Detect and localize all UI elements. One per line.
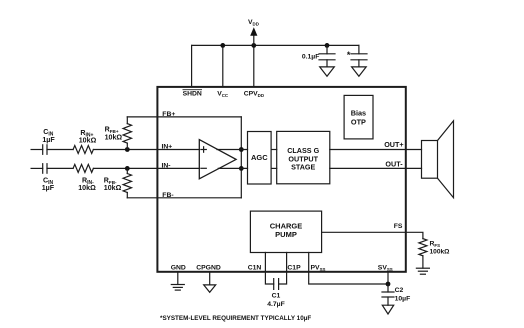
speaker LS1 (422, 121, 454, 198)
wire SVSS pin (387, 272, 389, 284)
svg-text:VDD: VDD (248, 19, 259, 26)
op-amp A1 (199, 140, 236, 179)
svg-text:PUMP: PUMP (275, 230, 297, 239)
node CPVDD junction (251, 43, 256, 48)
svg-text:*SYSTEM-LEVEL REQUIREMENT TYPI: *SYSTEM-LEVEL REQUIREMENT TYPICALLY 10µF (160, 315, 311, 322)
opamp plus sign (201, 147, 206, 152)
node feedback top (239, 147, 244, 152)
svg-text:OUT-: OUT- (385, 160, 403, 169)
wire opamp to AGC bottom (218, 167, 247, 169)
svg-text:0.1µF: 0.1µF (302, 54, 320, 61)
svg-text:IN-: IN- (162, 162, 171, 169)
svg-text:STAGE: STAGE (291, 163, 315, 172)
wire feedback vertical (240, 117, 242, 198)
svg-text:Bias: Bias (351, 108, 366, 117)
svg-text:100kΩ: 100kΩ (430, 248, 451, 255)
node 0.1uF tap (325, 43, 330, 48)
svg-text:IN+: IN+ (162, 144, 173, 151)
svg-text:FB-: FB- (162, 192, 173, 199)
wire IN- input (31, 167, 43, 169)
wire AGC to Class G bottom (271, 167, 277, 169)
wire opamp to AGC top (217, 149, 248, 151)
svg-text:SVSS: SVSS (378, 265, 393, 272)
resistor RFS 100k (419, 239, 427, 269)
capacitor asterisk bulk (351, 54, 367, 67)
svg-text:1µF: 1µF (42, 136, 55, 144)
block CHARGE PUMP (250, 211, 321, 252)
wire FB- (127, 197, 241, 199)
opamp minus sign (201, 167, 206, 169)
wire C1P pin (279, 253, 287, 285)
wire CPVDD pin (253, 45, 255, 87)
ground chassis under 0.1uF (320, 67, 335, 76)
node FB+ tap (125, 147, 130, 152)
wire CPGND pin (209, 272, 211, 285)
svg-text:10kΩ: 10kΩ (79, 137, 97, 145)
block CLASS G OUTPUT STAGE (277, 131, 330, 183)
power VDD arrow (250, 27, 257, 45)
svg-text:RFS: RFS (430, 241, 441, 248)
block AGC (248, 132, 272, 185)
svg-text:PVSS: PVSS (311, 265, 326, 272)
svg-text:OUT+: OUT+ (384, 140, 403, 149)
node SVSS junction (386, 282, 391, 287)
svg-text:4.7µF: 4.7µF (267, 301, 285, 308)
wire FB+ (127, 116, 241, 118)
svg-text:OTP: OTP (351, 118, 366, 127)
capacitor CIN bottom 1uF (43, 164, 73, 174)
svg-text:C1: C1 (272, 292, 281, 299)
resistor RFB- 10k (123, 168, 131, 197)
wire SHDN pin (191, 45, 193, 87)
capacitor CIN top 1uF (43, 145, 73, 155)
ground earth under RFS (416, 268, 429, 274)
capacitor 0.1uF bypass (319, 45, 335, 67)
op-amp IC outline U1 (157, 87, 405, 272)
svg-text:CPVDD: CPVDD (244, 91, 264, 98)
svg-text:FB+: FB+ (162, 111, 175, 118)
svg-text:C1P: C1P (287, 265, 301, 272)
wire VCC pin (222, 45, 224, 87)
capacitor C2 10uF (382, 284, 394, 305)
wire C1N pin (265, 253, 273, 285)
wire to asterisk cap (358, 45, 360, 53)
svg-text:FS: FS (394, 223, 403, 230)
svg-text:CPGND: CPGND (196, 265, 221, 272)
svg-text:C2: C2 (395, 287, 404, 294)
wire PVSS pin (309, 253, 388, 285)
wire IN- to opamp (93, 167, 199, 169)
ground chassis under CPGND (204, 285, 216, 292)
svg-text:*: * (347, 50, 351, 60)
svg-text:C1N: C1N (248, 265, 262, 272)
node FB- tap (125, 166, 130, 171)
wire FS (322, 232, 423, 238)
svg-text:10kΩ: 10kΩ (78, 184, 96, 192)
capacitor C1 4.7uF (274, 279, 279, 290)
node feedback bottom (239, 166, 244, 171)
svg-text:SHDN: SHDN (183, 91, 202, 98)
wire OUT+ (330, 149, 422, 151)
ground chassis under asterisk cap (352, 67, 367, 76)
svg-text:AGC: AGC (251, 153, 268, 162)
wire AGC to Class G top (271, 149, 277, 151)
svg-text:GND: GND (171, 265, 186, 272)
svg-text:1µF: 1µF (42, 184, 55, 192)
svg-text:10µF: 10µF (395, 295, 411, 302)
ground chassis under C2 (382, 305, 393, 314)
svg-text:10kΩ: 10kΩ (104, 184, 122, 192)
wire GND pin (177, 272, 179, 285)
ground earth under GND (171, 285, 184, 291)
resistor RIN+ 10k (73, 146, 93, 154)
wire IN+ input (31, 149, 43, 151)
svg-text:VCC: VCC (217, 91, 229, 98)
resistor RIN- 10k (73, 164, 93, 172)
block Bias OTP (344, 95, 373, 138)
wire IN+ to opamp (93, 149, 199, 151)
wire OUT- (330, 167, 422, 169)
svg-text:10kΩ: 10kΩ (105, 133, 123, 141)
resistor RFB+ 10k (123, 117, 131, 150)
node VCC junction (220, 43, 225, 48)
wire top supply bus (192, 44, 359, 46)
